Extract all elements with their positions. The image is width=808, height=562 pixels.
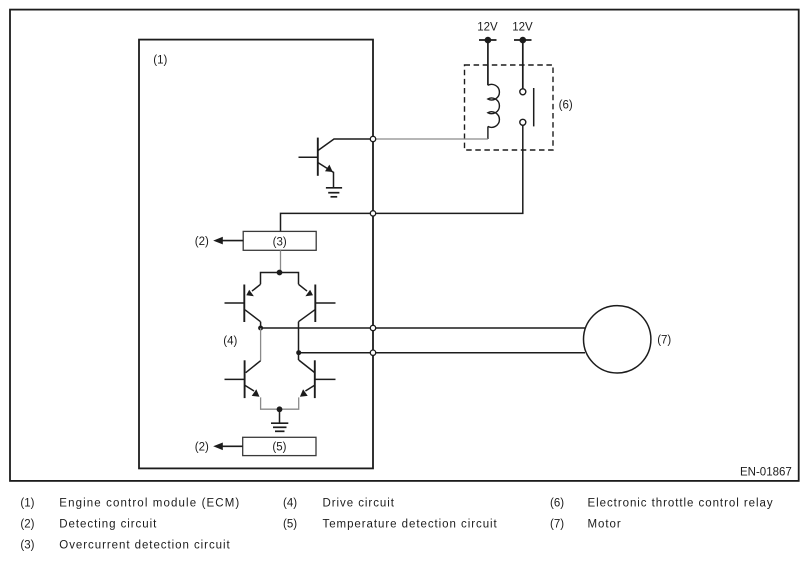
transistor Q4 base bar xyxy=(244,360,246,398)
transistor Q2 emitter arrow xyxy=(246,290,254,297)
svg-text:EN-01867: EN-01867 xyxy=(740,467,792,479)
svg-text:Engine control module (ECM): Engine control module (ECM) xyxy=(59,498,240,510)
transistor Q5 base lead xyxy=(315,378,336,380)
transistor Q3 base lead xyxy=(315,302,335,304)
motor wire upper xyxy=(261,327,585,329)
H-bridge top rail xyxy=(261,273,299,285)
junction right mid xyxy=(296,350,301,355)
node B on ECM edge xyxy=(370,211,375,216)
wire node B to box 3 xyxy=(281,213,372,231)
svg-text:(5): (5) xyxy=(272,442,286,454)
wire Q1 emitter to ground xyxy=(333,172,335,188)
motor M circle xyxy=(584,306,651,373)
motor wire lower xyxy=(299,352,585,354)
junction bottom xyxy=(277,406,283,412)
svg-text:12V: 12V xyxy=(477,21,498,33)
ground G1 xyxy=(326,188,342,197)
relay dashed box (6) xyxy=(465,65,554,150)
svg-text:(1): (1) xyxy=(153,54,167,66)
wire Q3 collector down xyxy=(298,322,300,360)
node A on ECM edge xyxy=(370,136,375,141)
transistor Q3 base bar xyxy=(314,285,316,323)
arrow box5 to (2) xyxy=(221,445,243,447)
12V supply 2 symbol xyxy=(514,40,532,89)
svg-text:(1): (1) xyxy=(20,498,34,510)
svg-text:Motor: Motor xyxy=(588,519,622,531)
relay coil L1 xyxy=(488,84,500,127)
transistor Q2 collector xyxy=(245,310,261,322)
junction left mid xyxy=(258,326,263,331)
transistor Q1 emitter xyxy=(318,163,334,173)
wire coil bottom to node A xyxy=(487,126,489,139)
svg-text:(2): (2) xyxy=(195,442,209,454)
wire switch to node B xyxy=(376,125,523,213)
svg-text:Drive circuit: Drive circuit xyxy=(323,498,395,510)
svg-text:Detecting circuit: Detecting circuit xyxy=(59,519,157,531)
node C on ECM edge xyxy=(370,325,375,330)
svg-text:Temperature detection circuit: Temperature detection circuit xyxy=(323,519,498,531)
relay switch contact bottom xyxy=(520,119,526,125)
transistor Q1 collector wire xyxy=(318,139,370,151)
svg-text:Overcurrent detection circuit: Overcurrent detection circuit xyxy=(59,540,230,552)
junction top xyxy=(277,270,283,276)
12V supply 1 symbol xyxy=(479,40,497,85)
wire junction to ground xyxy=(279,409,281,423)
svg-text:(7): (7) xyxy=(657,334,671,346)
transistor Q4 (bottom-left) collector xyxy=(246,361,261,373)
transistor Q5 base bar xyxy=(314,360,316,398)
svg-text:(2): (2) xyxy=(195,236,209,248)
box (5) temperature detection xyxy=(243,437,316,455)
svg-text:(3): (3) xyxy=(20,540,34,552)
svg-text:(6): (6) xyxy=(559,99,573,111)
transistor Q4 emitter xyxy=(245,385,254,391)
svg-text:(4): (4) xyxy=(223,336,237,348)
transistor Q5 emitter xyxy=(305,385,314,391)
box (3) overcurrent detection xyxy=(243,231,316,250)
transistor Q1 base lead xyxy=(299,156,318,158)
arrow box3 to (2) xyxy=(221,240,243,242)
transistor Q4 emitter arrow xyxy=(252,389,260,396)
wire left mid down (gray) xyxy=(260,328,262,361)
transistor Q4 base lead xyxy=(225,378,245,380)
svg-text:(6): (6) xyxy=(550,498,564,510)
relay switch contact top xyxy=(520,89,526,95)
relay switch blade xyxy=(533,88,535,126)
wire coil to node A (gray) xyxy=(376,138,488,140)
svg-text:(5): (5) xyxy=(283,519,297,531)
transistor Q2 base lead xyxy=(225,302,245,304)
transistor Q2 base bar xyxy=(243,285,245,323)
ECM box (1) xyxy=(139,40,373,469)
node D on ECM edge xyxy=(370,350,375,355)
transistor Q2 (top-left) emitter xyxy=(252,284,261,291)
svg-text:(3): (3) xyxy=(273,236,287,248)
transistor Q1 base bar xyxy=(317,138,319,176)
transistor Q5 (bottom-right) collector xyxy=(299,360,315,372)
transistor Q1 emitter arrow xyxy=(325,165,333,172)
wire box3 to H-bridge xyxy=(280,250,282,272)
transistor Q5 emitter arrow xyxy=(300,389,308,396)
svg-text:12V: 12V xyxy=(512,21,533,33)
svg-text:Electronic throttle control re: Electronic throttle control relay xyxy=(588,498,774,510)
transistor Q3 (top-right) emitter xyxy=(299,284,308,291)
transistor Q3 emitter arrow xyxy=(305,290,313,297)
svg-text:(7): (7) xyxy=(550,519,564,531)
wire Q2 collector to node xyxy=(260,322,262,328)
ground G2 xyxy=(271,423,288,431)
transistor Q3 collector xyxy=(299,310,315,322)
H-bridge bottom rail (gray) xyxy=(261,397,299,409)
svg-text:(2): (2) xyxy=(20,519,34,531)
svg-text:(4): (4) xyxy=(283,498,297,510)
